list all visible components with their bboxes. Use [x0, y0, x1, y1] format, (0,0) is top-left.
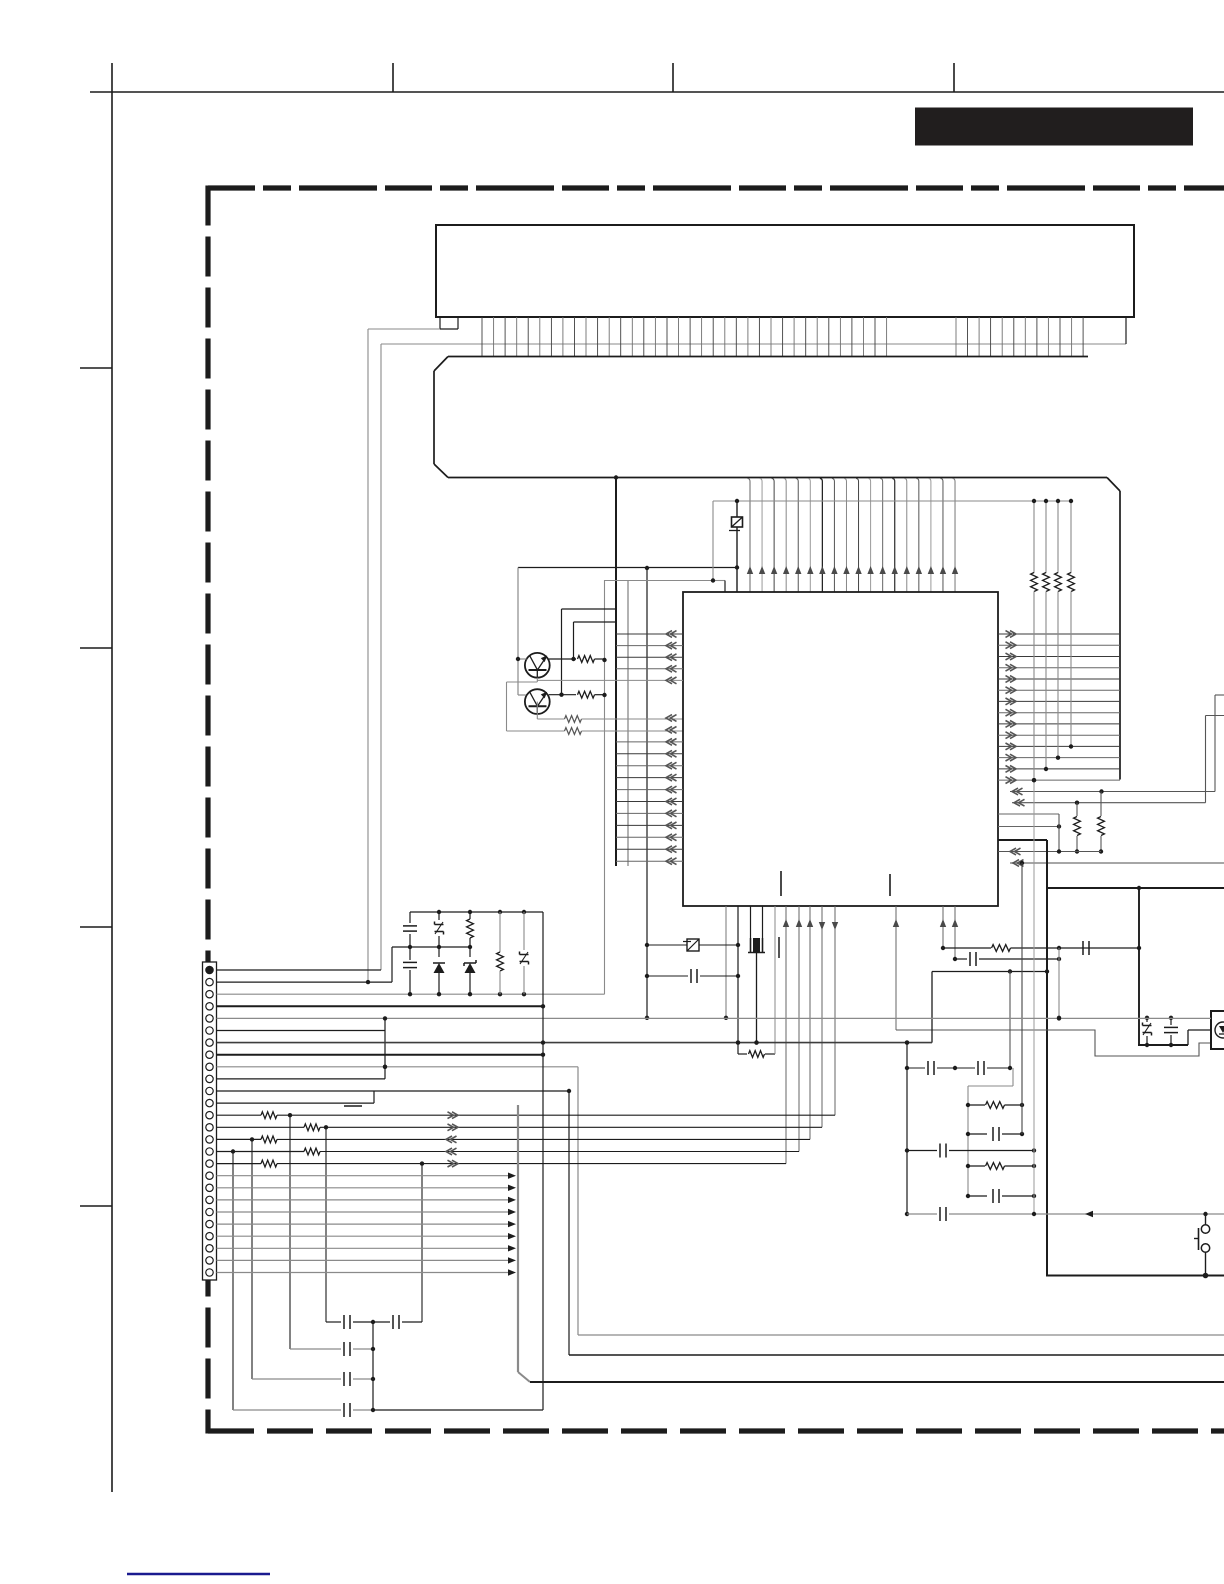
- wire: [998, 824, 1061, 828]
- crystal X1: [748, 906, 765, 1045]
- wire: [217, 1078, 386, 1080]
- wire: [1012, 716, 1224, 807]
- transistor Q2: [525, 689, 550, 714]
- wire: [711, 578, 725, 592]
- resistor row pin15: [217, 1136, 811, 1143]
- wire: [562, 609, 617, 695]
- wire: [574, 622, 617, 659]
- wire: [380, 344, 382, 970]
- wire: [1010, 860, 1224, 867]
- IC bottom control lines: [783, 906, 838, 1164]
- bus to IC address/data lines: [747, 479, 958, 593]
- resistor: [537, 702, 683, 723]
- wire: [645, 566, 649, 1020]
- wire: [217, 1091, 375, 1103]
- wire: [217, 1004, 546, 1008]
- wire: [1058, 814, 1060, 852]
- wire: [217, 1016, 1212, 1020]
- power trace: [998, 839, 1047, 841]
- wire: [251, 1139, 253, 1379]
- wire: [896, 1030, 1211, 1056]
- signal overline: [344, 1105, 362, 1107]
- wire: [217, 1053, 546, 1057]
- wire: [516, 568, 527, 696]
- wire: [713, 500, 1071, 502]
- resistor: [549, 691, 605, 698]
- resistor: [966, 1102, 1024, 1109]
- wire: [998, 848, 1101, 855]
- IC U1 main LSI: [683, 592, 998, 906]
- wire: [952, 906, 958, 961]
- rail: [392, 945, 472, 949]
- wire: [893, 906, 899, 1030]
- wire: [569, 1091, 1224, 1355]
- display data bus pins: [482, 317, 1083, 356]
- capacitor: [907, 1207, 1224, 1221]
- diode D: [433, 947, 445, 994]
- wire: [507, 678, 538, 731]
- ferrite bead: [647, 939, 738, 951]
- wire: [217, 969, 382, 971]
- wire: [605, 580, 714, 582]
- zener diode: [1143, 1016, 1152, 1048]
- ground trace: [530, 1381, 1224, 1383]
- wire: [1009, 972, 1011, 1069]
- ferrite bead: [729, 499, 743, 592]
- power trace: [1046, 840, 1048, 1276]
- wire: [627, 580, 629, 866]
- zener: [435, 912, 444, 947]
- resistor row pin14: [217, 1124, 823, 1131]
- resistor: [738, 906, 775, 1057]
- rail: [410, 910, 543, 914]
- wire: [1021, 863, 1023, 1134]
- wire: [289, 1115, 291, 1349]
- resistor: [966, 1163, 1036, 1170]
- wire: [1188, 1030, 1211, 1045]
- wire: [968, 1068, 1013, 1196]
- capacitor: [966, 1127, 1024, 1141]
- wire: [421, 1164, 423, 1322]
- bus highway outline: [434, 357, 1120, 780]
- wire: [602, 580, 606, 994]
- push switch SW1: [1194, 1214, 1210, 1276]
- capacitor: [233, 1403, 543, 1417]
- title block: [915, 108, 1193, 146]
- resistor: [497, 912, 504, 994]
- wire: [778, 937, 780, 958]
- wire: [367, 329, 369, 982]
- wire: [381, 317, 1126, 344]
- wire: [368, 328, 440, 330]
- wire: [325, 1127, 327, 1322]
- resistor row pin17: [217, 1160, 787, 1167]
- wire: [518, 565, 739, 569]
- capacitor: [1164, 1016, 1178, 1048]
- wire: [372, 1322, 374, 1410]
- IC right pin wires: [998, 631, 1120, 784]
- wire: [998, 813, 1059, 815]
- regulator IC: [1211, 1011, 1224, 1049]
- wire: [1057, 948, 1061, 1020]
- power trace: [1137, 888, 1141, 1045]
- net vertical: [542, 912, 544, 1410]
- capacitor: [645, 943, 738, 983]
- connector CN1: [203, 962, 217, 1280]
- wire: [712, 501, 714, 581]
- power trace: [1046, 1273, 1224, 1279]
- capacitor: [966, 1189, 1036, 1203]
- display unit block: [436, 225, 1134, 317]
- resistor row pin13: [217, 1112, 836, 1119]
- wire: [440, 317, 458, 329]
- wire: [578, 1067, 1224, 1335]
- resistor row pin16: [217, 1148, 800, 1155]
- wire: [217, 1089, 572, 1093]
- capacitor C: [403, 947, 417, 994]
- capacitor: [290, 1342, 375, 1356]
- connector pins: [206, 966, 213, 1276]
- wire: [217, 992, 605, 996]
- capacitor: [252, 1372, 375, 1386]
- resistor: [943, 941, 1139, 955]
- resistor: [549, 656, 605, 663]
- resistor: [467, 912, 474, 947]
- capacitor C: [403, 912, 417, 947]
- wire: [736, 906, 740, 1045]
- transistor Q1: [525, 653, 550, 678]
- resistor: [507, 728, 684, 735]
- capacitor: [326, 1315, 422, 1329]
- bus rail: [518, 1105, 530, 1382]
- IC pin mark: [889, 874, 891, 896]
- wire: [931, 972, 933, 1043]
- power trace: [1138, 1044, 1188, 1046]
- wire: [724, 906, 728, 1020]
- wire: [217, 1040, 933, 1044]
- resistor: [1098, 792, 1105, 854]
- capacitor: [907, 1061, 1012, 1075]
- capacitor: [907, 1144, 1036, 1158]
- wire: [1010, 695, 1224, 795]
- wire: [217, 1065, 579, 1069]
- pull-up resistors R array: [1031, 499, 1075, 783]
- wire: [232, 1152, 234, 1411]
- wire: [940, 906, 946, 950]
- wire: [1032, 778, 1036, 1214]
- wire: [905, 1040, 909, 1216]
- resistor: [1074, 803, 1081, 854]
- zener diode: [464, 947, 476, 994]
- keyboard matrix lines: [217, 1173, 517, 1276]
- capacitor: [955, 952, 1061, 966]
- zener: [520, 912, 529, 994]
- IC left pin wires: [537, 631, 683, 865]
- wire: [217, 947, 393, 984]
- IC pin1 mark: [780, 871, 782, 896]
- wire: [217, 1018, 388, 1079]
- wire: [614, 475, 618, 866]
- power trace: [1047, 886, 1224, 890]
- wire: [932, 969, 1049, 973]
